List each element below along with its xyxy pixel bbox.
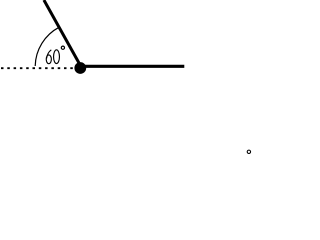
small ring mark bottom right xyxy=(247,150,250,153)
ray OA diagonal up-left xyxy=(44,0,82,68)
vertex point O xyxy=(74,62,86,74)
degree mark of 60 xyxy=(61,46,64,49)
wire dotted ray left from vertex xyxy=(1,67,75,69)
ray OB horizontal right xyxy=(80,65,184,68)
label 60 digit 6 xyxy=(46,50,51,64)
label 60 digit 0 xyxy=(54,50,60,64)
angle arc xyxy=(35,27,59,66)
